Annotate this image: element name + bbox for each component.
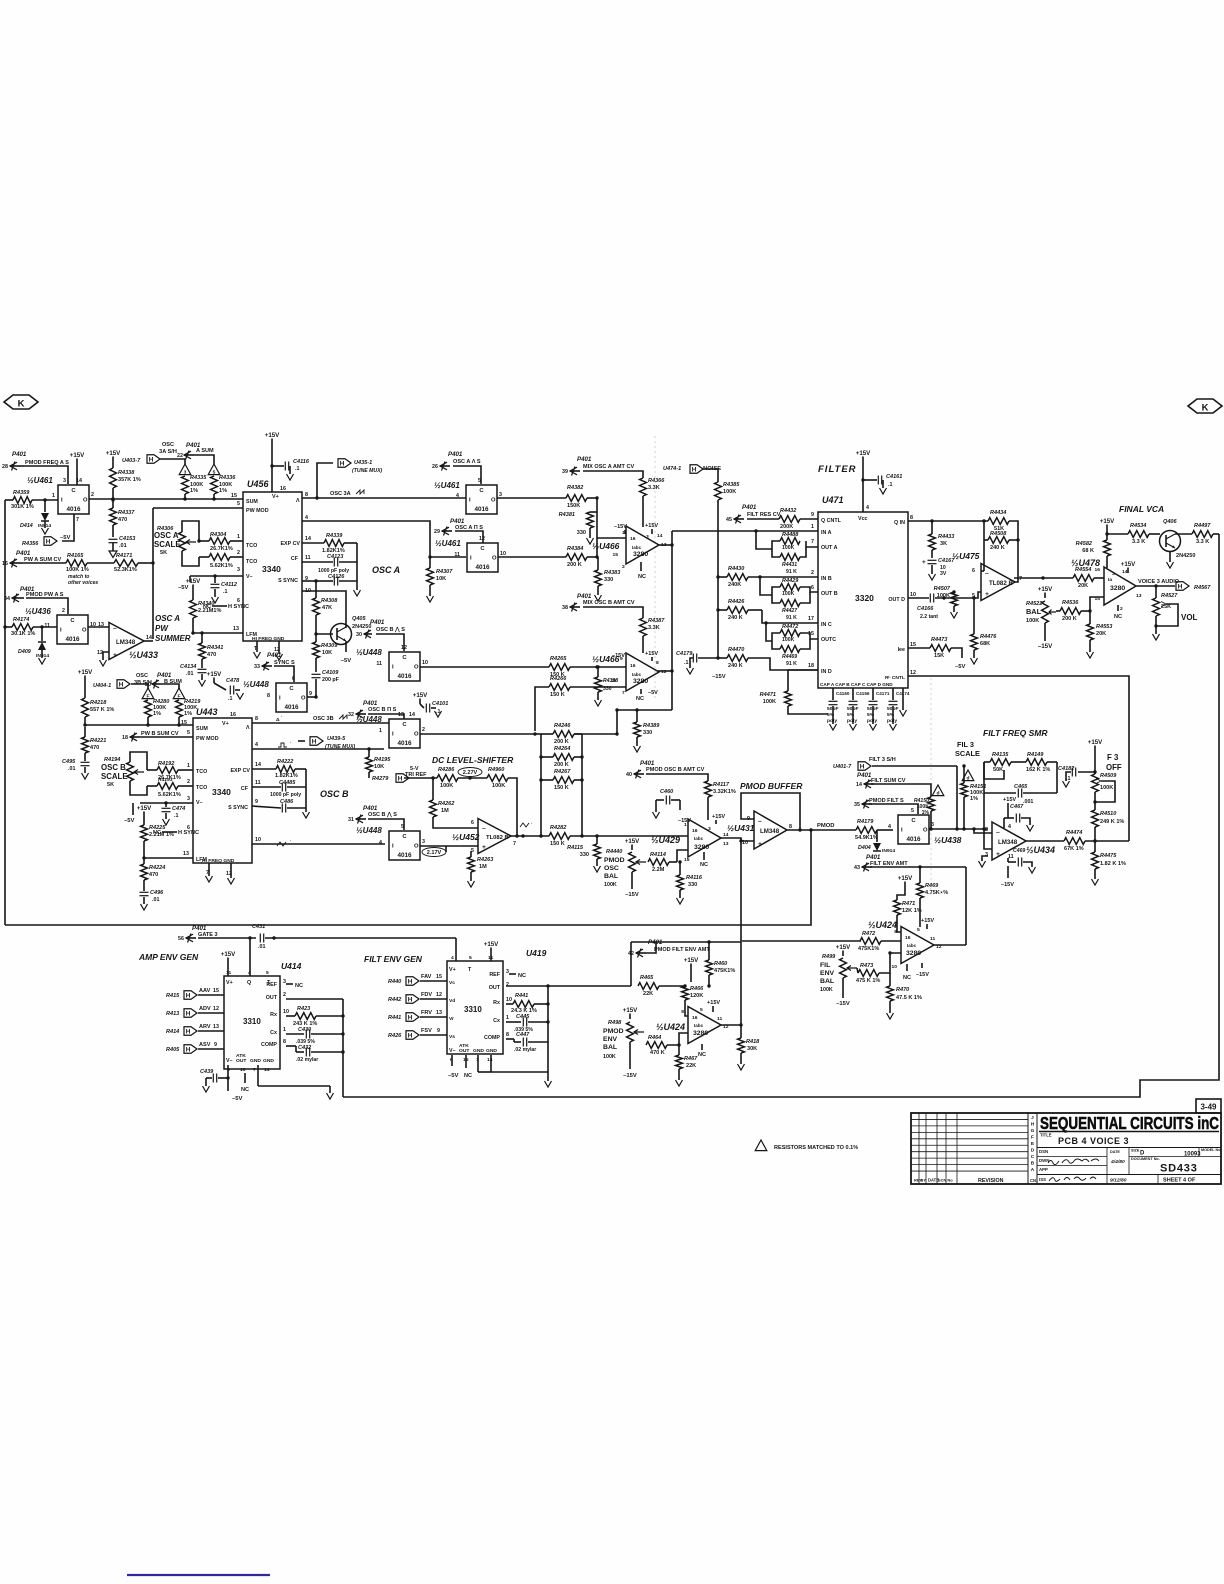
svg-text:4016: 4016 xyxy=(66,506,81,513)
wire: mix bus bottom hook xyxy=(617,710,672,734)
svg-text:½U461: ½U461 xyxy=(434,481,460,490)
svg-text:6: 6 xyxy=(972,568,975,574)
wire: R464 to U424b plus xyxy=(667,1033,688,1045)
svg-text:22K: 22K xyxy=(686,1063,696,1069)
svg-text:.1: .1 xyxy=(223,589,227,595)
svg-text:47K: 47K xyxy=(322,605,332,611)
wire: R4179 to U438 xyxy=(877,829,893,831)
svg-text:R442: R442 xyxy=(388,997,402,1003)
svg-text:R471: R471 xyxy=(902,901,915,907)
svg-text:SYNC S: SYNC S xyxy=(274,660,295,666)
svg-text:+: + xyxy=(113,652,117,659)
ground below C4179 and -15V xyxy=(690,658,693,668)
svg-text:½U424: ½U424 xyxy=(656,1022,685,1032)
svg-text:R4497: R4497 xyxy=(1194,523,1211,529)
svg-text:R4338: R4338 xyxy=(118,470,135,476)
svg-text:6: 6 xyxy=(471,820,474,826)
svg-text:RESISTORS MATCHED TO 0.1%: RESISTORS MATCHED TO 0.1% xyxy=(774,1145,858,1151)
svg-text:R4117: R4117 xyxy=(713,782,730,788)
svg-text:2.27V: 2.27V xyxy=(463,770,478,776)
svg-text:14: 14 xyxy=(487,1057,493,1063)
svg-text:AAV: AAV xyxy=(199,988,211,994)
svg-text:SHEET 4 OF: SHEET 4 OF xyxy=(1163,1178,1196,1184)
resistor R4280 100K 1% xyxy=(145,700,152,717)
svg-text:R4337: R4337 xyxy=(118,510,135,516)
svg-text:470 K: 470 K xyxy=(650,1050,665,1056)
svg-text:+15V: +15V xyxy=(1121,561,1136,568)
resistor R4534 3.3K xyxy=(1128,531,1149,538)
svg-text:I: I xyxy=(61,498,63,504)
resistor R460 475K 1% xyxy=(706,960,713,975)
svg-text:H SYNC: H SYNC xyxy=(228,604,249,610)
svg-text:200 K: 200 K xyxy=(554,739,569,745)
ground below R4381 xyxy=(589,528,591,538)
svg-text:+15V: +15V xyxy=(1003,797,1016,803)
svg-text:C4126: C4126 xyxy=(328,574,345,580)
svg-text:O: O xyxy=(414,844,419,850)
resistor R469 4.75K 1% xyxy=(917,883,924,898)
resistor R4385 100K xyxy=(715,482,722,500)
svg-text:H: H xyxy=(186,992,191,999)
wire: OUT D node xyxy=(908,597,929,599)
wire: R4384 to node xyxy=(587,556,597,558)
svg-text:D: D xyxy=(1140,1151,1145,1157)
svg-text:10K: 10K xyxy=(374,764,384,770)
svg-text:O: O xyxy=(923,828,928,834)
svg-text:2: 2 xyxy=(62,608,65,614)
glyph triangle wave at U452 out xyxy=(520,823,529,827)
svg-text:3280: 3280 xyxy=(694,844,709,851)
capacitor C4134 .01 xyxy=(201,659,203,668)
drawing frame: K zone flag top-left xyxy=(4,395,38,409)
wire: Iee pin xyxy=(908,647,930,649)
svg-text:16: 16 xyxy=(692,828,698,834)
svg-text:C4101: C4101 xyxy=(432,701,448,707)
svg-text:100K: 100K xyxy=(604,882,617,888)
svg-text:R4488: R4488 xyxy=(782,532,799,538)
svg-text:Δ: Δ xyxy=(276,717,280,723)
svg-text:OSC A Π S: OSC A Π S xyxy=(455,525,483,531)
ground below R4116 xyxy=(679,890,681,898)
wire: compensation bus to ground xyxy=(356,543,358,581)
feedback resistor R4429 100K xyxy=(780,584,800,591)
svg-text:8: 8 xyxy=(894,929,897,935)
wire: R4387 into U466b xyxy=(642,636,644,653)
svg-text:REF: REF xyxy=(266,982,277,988)
svg-text:+15V: +15V xyxy=(265,432,280,439)
svg-text:2.2 tant: 2.2 tant xyxy=(920,614,938,620)
svg-text:V+: V+ xyxy=(272,494,279,500)
wire: Q405 collector to pin10 xyxy=(302,591,346,628)
svg-text:3: 3 xyxy=(422,839,425,845)
svg-text:FILT ENV GEN: FILT ENV GEN xyxy=(364,954,423,964)
svg-text:C: C xyxy=(289,686,294,692)
svg-text:C496: C496 xyxy=(150,890,164,896)
svg-text:5: 5 xyxy=(187,730,190,736)
svg-text:OSC B ⋀ S: OSC B ⋀ S xyxy=(368,811,397,818)
svg-text:20K: 20K xyxy=(1096,631,1106,637)
diode D414 IN914 xyxy=(44,500,46,512)
resistor R4387 3.3K xyxy=(640,618,647,636)
wire: U466a output to mix bus xyxy=(659,544,672,546)
svg-text:PMOD: PMOD xyxy=(817,823,835,829)
svg-text:I: I xyxy=(469,498,471,504)
wire: OUT D to U475 plus input xyxy=(974,592,981,598)
svg-text:R4309: R4309 xyxy=(321,643,338,649)
resistor R4218 557K 1% xyxy=(82,698,89,717)
svg-text:7: 7 xyxy=(253,1067,256,1073)
svg-text:10: 10 xyxy=(500,551,506,557)
svg-text:35: 35 xyxy=(854,802,860,808)
wire: U424a out riser xyxy=(934,944,966,946)
svg-text:4016: 4016 xyxy=(475,564,490,571)
svg-text:8: 8 xyxy=(305,492,308,498)
resistor R4224 470 xyxy=(141,864,148,880)
svg-text:OUT: OUT xyxy=(459,1048,469,1054)
svg-text:PCB 4 VOICE 3: PCB 4 VOICE 3 xyxy=(1058,1136,1129,1146)
svg-text:–15V: –15V xyxy=(1001,882,1014,888)
svg-text:–15V: –15V xyxy=(612,653,625,659)
resistor R4165 100K 1% xyxy=(66,560,87,567)
wire: R4473 to -5V xyxy=(951,648,962,658)
svg-text:R4534: R4534 xyxy=(1130,523,1146,529)
svg-text:R441: R441 xyxy=(515,993,528,999)
svg-text:H: H xyxy=(1178,583,1183,590)
svg-text:100K: 100K xyxy=(782,545,795,551)
svg-text:6: 6 xyxy=(811,585,814,591)
resistor R4553 20K xyxy=(1087,624,1094,640)
svg-text:K: K xyxy=(1202,403,1209,414)
svg-text:TCO: TCO xyxy=(246,543,257,549)
svg-text:11: 11 xyxy=(930,936,935,942)
svg-text:½U466: ½U466 xyxy=(592,541,620,551)
svg-text:4/4/80: 4/4/80 xyxy=(1110,1159,1125,1165)
feedback resistor R4488 100K xyxy=(806,541,818,547)
svg-text:R4430: R4430 xyxy=(728,566,745,572)
svg-text:+: + xyxy=(922,559,926,566)
ground below R4476 xyxy=(973,650,975,658)
svg-text:11: 11 xyxy=(305,555,311,561)
svg-text:R4265: R4265 xyxy=(550,656,567,662)
resistor R4171 52.3K 1% xyxy=(114,560,138,567)
svg-text:FINAL VCA: FINAL VCA xyxy=(1119,504,1164,514)
svg-text:13: 13 xyxy=(723,841,729,847)
svg-text:13: 13 xyxy=(98,622,104,628)
svg-text:5: 5 xyxy=(237,501,240,507)
svg-text:100K 1%: 100K 1% xyxy=(66,567,89,573)
title block: logo underline xyxy=(1039,1131,1219,1133)
svg-text:+15V: +15V xyxy=(625,838,640,845)
svg-text:–: – xyxy=(482,825,486,832)
svg-text:5: 5 xyxy=(469,955,472,961)
svg-text:C495: C495 xyxy=(62,759,76,765)
svg-text:28: 28 xyxy=(2,464,8,470)
svg-text:OSC: OSC xyxy=(162,442,174,448)
svg-text:Iabc: Iabc xyxy=(907,943,917,948)
svg-text:5K: 5K xyxy=(107,782,114,788)
svg-text:R4473: R4473 xyxy=(931,637,948,643)
svg-text:C: C xyxy=(480,546,485,552)
svg-text:1%: 1% xyxy=(970,796,978,802)
resistor R4262 1M xyxy=(430,800,437,817)
wire: pmod filt s to U438 control xyxy=(869,804,918,814)
wire: U433 output to PW MOD riser xyxy=(144,640,153,642)
svg-text:15: 15 xyxy=(684,857,690,863)
svg-text:91 K: 91 K xyxy=(786,615,797,621)
svg-text:R415: R415 xyxy=(166,993,180,999)
svg-text:TL082 B: TL082 B xyxy=(989,580,1013,587)
resistor R4536 200K xyxy=(1060,608,1081,615)
resistor R470 47.5K 1% xyxy=(887,986,894,1001)
svg-text:⋅: ⋅ xyxy=(290,838,291,843)
svg-text:ADV: ADV xyxy=(199,1006,211,1012)
svg-text:H: H xyxy=(860,763,865,770)
svg-text:3: 3 xyxy=(237,567,240,573)
svg-text:R4359: R4359 xyxy=(13,490,30,496)
ground below R4307 xyxy=(429,585,431,596)
wire: U448a output xyxy=(307,696,316,698)
resistor R4382 150K xyxy=(566,495,587,502)
wire: U461c out to R4384 xyxy=(498,556,566,558)
pot R4509 100K xyxy=(1094,751,1096,774)
svg-text:O: O xyxy=(301,696,306,702)
connector H U439-5 TUNE MUX xyxy=(310,737,323,746)
resistor R471 12K 1% xyxy=(894,900,901,915)
wire: noise to R4385 xyxy=(704,469,718,482)
svg-text:5: 5 xyxy=(911,808,914,814)
wire: U419 out bus xyxy=(506,985,548,987)
resistor R4430 240K xyxy=(718,576,727,578)
svg-text:½U448: ½U448 xyxy=(356,715,382,724)
svg-text:10: 10 xyxy=(255,837,261,843)
wire: R4225 to LFM xyxy=(143,841,145,858)
svg-text:8: 8 xyxy=(267,693,270,699)
svg-text:C465: C465 xyxy=(1014,784,1028,790)
capacitor C478 .1 xyxy=(214,683,226,690)
svg-text:P401: P401 xyxy=(866,854,881,861)
svg-text:13: 13 xyxy=(436,1010,442,1016)
svg-text:14: 14 xyxy=(264,1067,270,1073)
svg-text:FIL: FIL xyxy=(820,962,830,969)
resistor R4341 470 xyxy=(201,633,203,643)
svg-text:OSC A Λ S: OSC A Λ S xyxy=(453,459,481,465)
svg-text:3320: 3320 xyxy=(855,593,874,603)
svg-text:R4472: R4472 xyxy=(782,624,799,630)
svg-text:R4426: R4426 xyxy=(728,599,745,605)
svg-text:4.75K⋆%: 4.75K⋆% xyxy=(925,890,948,896)
svg-text:1: 1 xyxy=(187,763,190,769)
svg-text:NC: NC xyxy=(700,862,708,868)
wire: R4340 to LFM wire xyxy=(192,618,194,633)
svg-text:PMOD FREQ A S: PMOD FREQ A S xyxy=(25,460,69,466)
svg-text:.001: .001 xyxy=(1023,799,1033,805)
svg-text:TCO: TCO xyxy=(196,785,207,791)
capacitor C474 .1 xyxy=(164,801,167,804)
note triangle resistors matched xyxy=(755,1140,767,1151)
svg-text:½U431: ½U431 xyxy=(727,823,755,833)
svg-text:54.9K1%: 54.9K1% xyxy=(855,835,878,841)
svg-text:11: 11 xyxy=(226,970,231,976)
wire: left border vertical bus xyxy=(4,500,6,925)
svg-text:R4471: R4471 xyxy=(760,692,776,698)
svg-text:½U434: ½U434 xyxy=(1026,845,1055,855)
svg-text:P401: P401 xyxy=(742,504,757,511)
wire: U466b output to mix bus xyxy=(658,670,672,672)
svg-text:OSC B Π S: OSC B Π S xyxy=(368,707,397,713)
svg-text:5.62K1%: 5.62K1% xyxy=(210,563,233,569)
svg-text:ECN No: ECN No xyxy=(938,1178,953,1183)
svg-text:R4174: R4174 xyxy=(13,617,29,623)
svg-text:13: 13 xyxy=(398,712,404,718)
svg-text:14: 14 xyxy=(146,635,152,641)
resistor R4383 330 xyxy=(597,557,599,570)
svg-text:13: 13 xyxy=(233,626,239,632)
svg-text:3: 3 xyxy=(63,478,66,484)
svg-text:–5V: –5V xyxy=(341,658,352,664)
svg-text:150K: 150K xyxy=(567,503,580,509)
svg-text:34: 34 xyxy=(4,596,10,602)
svg-text:R4267: R4267 xyxy=(554,769,571,775)
svg-text:56: 56 xyxy=(178,936,184,942)
svg-text:C4153: C4153 xyxy=(119,536,136,542)
svg-text:2: 2 xyxy=(283,992,286,998)
svg-text:NC: NC xyxy=(518,973,526,979)
svg-text:BAL: BAL xyxy=(603,1044,617,1051)
svg-text:2: 2 xyxy=(1120,606,1123,612)
svg-text:.1: .1 xyxy=(228,696,232,702)
resistor R4474 67K 1% xyxy=(1064,838,1085,845)
svg-text:O: O xyxy=(492,556,497,562)
svg-text:.01: .01 xyxy=(186,671,193,677)
svg-text:NC: NC xyxy=(464,1073,472,1079)
svg-text:OSC 3A: OSC 3A xyxy=(330,491,351,497)
svg-text:12: 12 xyxy=(436,992,442,998)
svg-text:H: H xyxy=(692,466,697,473)
resistor R4225 2.21M 1% xyxy=(143,817,145,825)
svg-text:C469: C469 xyxy=(1013,848,1025,854)
svg-text:R4387: R4387 xyxy=(648,618,665,624)
svg-text:R4429: R4429 xyxy=(782,578,799,584)
pot R4527 25K VOL xyxy=(1155,586,1157,598)
svg-text:200 K: 200 K xyxy=(554,762,569,768)
svg-text:200 pF: 200 pF xyxy=(322,677,340,683)
svg-text:⋅: ⋅ xyxy=(281,714,282,719)
svg-text:I: I xyxy=(279,696,281,702)
wire: OSC B summing bus xyxy=(85,724,193,726)
resistor R4193 5.62K 1% xyxy=(157,783,178,790)
svg-text:–15V: –15V xyxy=(625,892,639,898)
svg-text:16: 16 xyxy=(630,536,636,542)
svg-text:K: K xyxy=(18,399,25,410)
warning triangle F left xyxy=(142,688,154,699)
svg-text:Vs: Vs xyxy=(449,1034,455,1040)
svg-text:20K: 20K xyxy=(1078,583,1088,589)
glyph pulse B xyxy=(278,743,287,747)
wiper loop to VOL xyxy=(1156,604,1178,626)
wire: R4265 to U466b minus xyxy=(570,666,626,668)
wire: PMOD FREQ A S to U461 control xyxy=(24,466,68,484)
wire: top rail of pmod filt env xyxy=(631,941,741,943)
svg-text:3: 3 xyxy=(506,969,509,975)
wire: node to U478 minus xyxy=(1090,597,1104,611)
title block: row separators xyxy=(1037,1147,1221,1149)
svg-text:R423: R423 xyxy=(297,1006,311,1012)
wire: C460 loop xyxy=(655,800,657,812)
svg-text:12: 12 xyxy=(97,650,103,656)
svg-text:R470: R470 xyxy=(896,987,910,993)
svg-text:Q: Q xyxy=(247,980,251,986)
svg-text:68K: 68K xyxy=(980,641,990,647)
svg-text:47.5 K 1%: 47.5 K 1% xyxy=(896,995,922,1001)
svg-text:3: 3 xyxy=(985,852,988,858)
wire: R4114 to U429 plus xyxy=(669,861,677,863)
svg-text:H: H xyxy=(340,460,345,467)
wire: amt cv to R4366 xyxy=(583,471,643,478)
svg-text:R4509: R4509 xyxy=(1100,773,1117,779)
svg-text:12: 12 xyxy=(910,670,916,676)
wire: R4426 into IN C xyxy=(762,610,818,623)
svg-text:12: 12 xyxy=(401,645,407,651)
svg-text:3: 3 xyxy=(184,469,187,475)
svg-text:FILT SUM CV: FILT SUM CV xyxy=(871,778,906,784)
svg-text:P401: P401 xyxy=(577,593,592,600)
svg-text:25K: 25K xyxy=(1161,604,1171,610)
svg-text:45: 45 xyxy=(726,517,732,523)
svg-text:FDV: FDV xyxy=(421,992,432,998)
ground below U419 riser xyxy=(545,1081,552,1087)
wire: R4165 to R4171 xyxy=(22,562,66,564)
svg-text:CN: CN xyxy=(1030,1178,1036,1183)
svg-text:FILT ENV AMT: FILT ENV AMT xyxy=(870,861,908,867)
resistor R4476 68K xyxy=(971,634,978,650)
svg-text:C474: C474 xyxy=(172,806,185,812)
svg-text:R460: R460 xyxy=(714,961,728,967)
ground below R4475 xyxy=(1094,869,1096,879)
svg-text:R4366: R4366 xyxy=(648,478,665,484)
svg-text:½U438: ½U438 xyxy=(934,835,962,845)
svg-text:D409: D409 xyxy=(18,649,31,655)
svg-text:31: 31 xyxy=(348,817,354,823)
svg-text:+15V: +15V xyxy=(484,941,499,948)
svg-text:U419: U419 xyxy=(526,948,547,958)
warning triangle 3 xyxy=(179,464,191,475)
svg-text:100K: 100K xyxy=(782,637,795,643)
svg-text:G: G xyxy=(1031,1128,1035,1134)
svg-text:4016: 4016 xyxy=(397,673,412,680)
svg-text:R473: R473 xyxy=(860,963,874,969)
svg-text:.01: .01 xyxy=(68,766,75,772)
wire: U436 out to U433 xyxy=(88,626,109,628)
resistor R4309 10K xyxy=(313,642,320,658)
resistor R4304 26.7K 1% xyxy=(209,538,230,545)
ground below R4527 xyxy=(1155,626,1157,634)
svg-text:5.62K1%: 5.62K1% xyxy=(158,792,181,798)
ground below R467 xyxy=(678,1069,680,1080)
wire: U448b out to R4265 xyxy=(420,666,549,668)
svg-text:TL082 B: TL082 B xyxy=(486,835,509,841)
svg-text:IN A: IN A xyxy=(821,530,832,536)
svg-text:HI FREQ GND: HI FREQ GND xyxy=(202,858,235,864)
svg-text:67K 1%: 67K 1% xyxy=(1064,846,1084,852)
wire: P401-32 to U448c control xyxy=(368,714,404,719)
svg-text:⋅: ⋅ xyxy=(531,821,532,826)
svg-text:4016: 4016 xyxy=(906,836,921,843)
connector H VOICE 3 AUDIO out xyxy=(1176,582,1189,591)
svg-text:200 K: 200 K xyxy=(567,562,582,568)
svg-text:EXP CV: EXP CV xyxy=(280,541,300,547)
svg-text:V–: V– xyxy=(196,800,203,806)
resistor R4264 200K xyxy=(553,754,574,761)
